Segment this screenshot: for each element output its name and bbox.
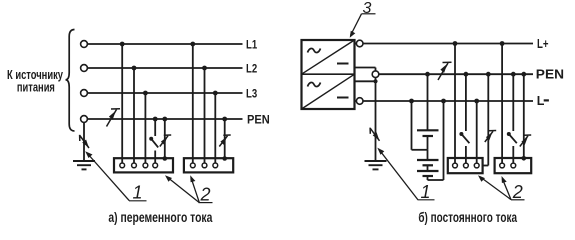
svg-text:L2: L2 <box>246 61 257 75</box>
svg-text:питания: питания <box>17 80 55 94</box>
svg-text:L+: L+ <box>537 37 549 51</box>
svg-text:L3: L3 <box>246 86 257 100</box>
svg-text:2: 2 <box>512 182 523 202</box>
svg-text:б) постоянного тока: б) постоянного тока <box>418 210 517 225</box>
svg-text:1: 1 <box>133 183 143 203</box>
svg-text:L1: L1 <box>246 37 257 51</box>
svg-text:L: L <box>537 94 545 108</box>
svg-text:PEN: PEN <box>247 113 270 127</box>
svg-text:1: 1 <box>421 182 431 202</box>
svg-text:2: 2 <box>200 185 211 205</box>
svg-text:PEN: PEN <box>536 66 564 81</box>
svg-text:3: 3 <box>363 0 372 17</box>
svg-text:а) переменного тока: а) переменного тока <box>108 210 212 225</box>
